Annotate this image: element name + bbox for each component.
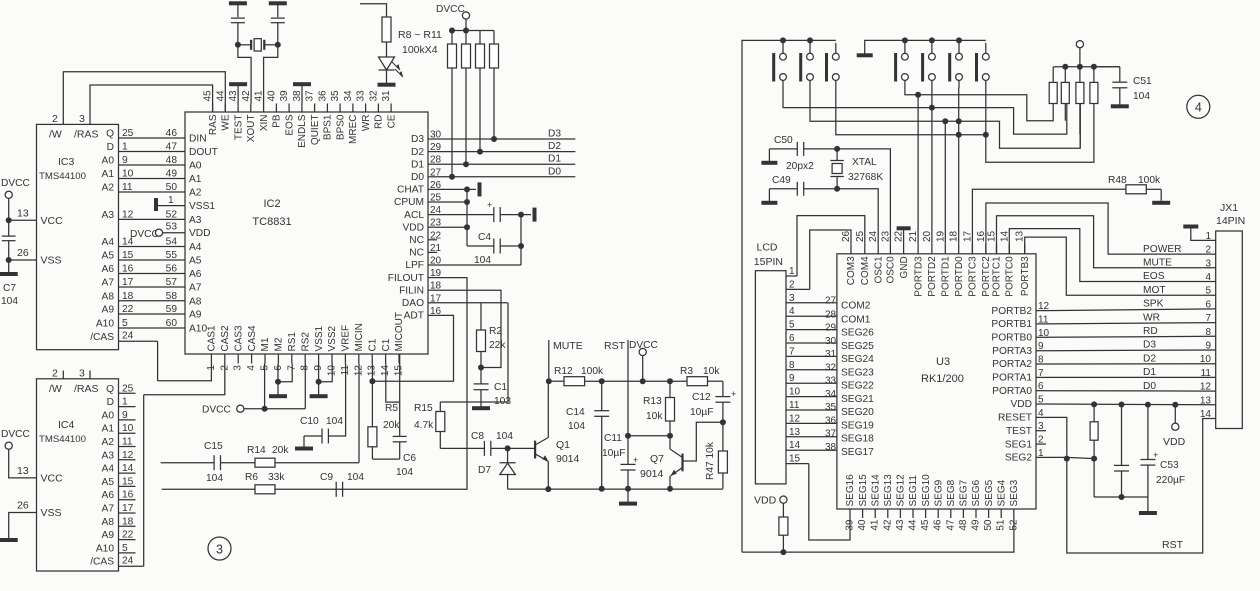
ground bar below C7 <box>0 260 18 276</box>
svg-text:D1: D1 <box>1143 367 1156 378</box>
svg-text:33: 33 <box>825 376 837 387</box>
CHAT pin 26 wire to bar <box>437 182 482 196</box>
svg-text:PORTB1: PORTB1 <box>991 319 1032 330</box>
U3 top pin 17 PORTC3 <box>962 230 978 296</box>
svg-text:29: 29 <box>825 323 837 334</box>
capacitor C14 104 <box>566 378 609 492</box>
svg-text:22: 22 <box>122 530 134 541</box>
svg-text:52: 52 <box>166 209 178 220</box>
ground bar under M2 <box>269 394 287 398</box>
svg-text:3: 3 <box>216 543 223 557</box>
U3 left pin 33 SEG22 <box>825 376 874 392</box>
svg-text:9014: 9014 <box>640 468 664 480</box>
svg-text:34: 34 <box>825 389 837 400</box>
wire IC3 A7 pin 17 to IC2 pin 57 <box>102 277 185 289</box>
push button S6 <box>948 43 962 88</box>
JX1 pin 13 <box>1200 395 1212 406</box>
svg-text:2: 2 <box>1205 245 1211 256</box>
svg-text:6: 6 <box>1205 299 1211 310</box>
capacitor C50 20p <box>761 135 840 165</box>
svg-text:SEG16: SEG16 <box>845 474 856 507</box>
svg-text:TEST: TEST <box>233 114 244 140</box>
svg-text:22k: 22k <box>489 340 506 351</box>
U3 top pin 22 GND <box>894 230 910 278</box>
svg-text:R14: R14 <box>247 445 266 456</box>
svg-text:TMS44100: TMS44100 <box>39 434 86 445</box>
svg-text:16: 16 <box>122 264 134 275</box>
svg-text:20k: 20k <box>272 445 289 456</box>
svg-text:A6: A6 <box>102 490 115 501</box>
svg-text:8: 8 <box>1038 355 1044 366</box>
circled 3 section marker <box>208 537 231 560</box>
svg-text:14PIN: 14PIN <box>1216 215 1245 227</box>
svg-text:D2: D2 <box>1143 353 1156 364</box>
wire IC3 A1 pin 10 to IC2 pin 49 <box>102 169 185 181</box>
svg-text:26: 26 <box>17 500 29 512</box>
svg-text:/W: /W <box>49 129 62 141</box>
svg-text:3: 3 <box>233 365 244 371</box>
svg-text:CAS1: CAS1 <box>207 325 218 352</box>
svg-text:CHAT: CHAT <box>397 185 424 196</box>
svg-text:51: 51 <box>996 519 1007 531</box>
svg-text:C10: C10 <box>300 416 319 427</box>
Q1 collector wire to MUTE node <box>547 381 549 437</box>
wire C50 line to U3 OSC0 <box>837 149 890 244</box>
svg-text:XIN: XIN <box>259 115 270 132</box>
IC2 bottom pin 2 CAS2 <box>219 325 231 371</box>
wire IC3 D pin 1 to IC2 pin 47 <box>107 142 185 154</box>
svg-text:2: 2 <box>52 368 58 380</box>
crystal between XOUT and XIN <box>238 39 278 51</box>
IC4 A3 pin 12 stub <box>102 450 136 462</box>
svg-text:18: 18 <box>949 230 960 242</box>
LCD pin 3 wire to U3 pin 27 <box>786 293 837 304</box>
svg-text:9014: 9014 <box>556 453 580 465</box>
ground bar under C1 <box>472 406 490 410</box>
U3 left pin 31 SEG24 <box>825 349 874 365</box>
svg-text:/RAS: /RAS <box>74 129 99 141</box>
svg-text:46: 46 <box>933 519 944 531</box>
svg-text:RD: RD <box>1143 326 1158 337</box>
svg-text:COM3: COM3 <box>846 256 857 285</box>
svg-text:C12: C12 <box>692 392 711 403</box>
svg-text:RST: RST <box>604 340 626 352</box>
svg-text:CE: CE <box>386 114 397 128</box>
svg-text:D: D <box>107 397 114 408</box>
svg-text:+: + <box>633 455 638 465</box>
svg-text:45: 45 <box>920 519 931 531</box>
svg-text:4: 4 <box>246 365 257 371</box>
wire U3 pin 12 to JX1 pin 6 SPK <box>1046 309 1216 311</box>
svg-text:MREC: MREC <box>348 115 359 144</box>
svg-text:4: 4 <box>1038 408 1044 419</box>
svg-text:50: 50 <box>983 519 994 531</box>
MICOUT pin15 wire <box>399 354 401 402</box>
capacitor C8 104 <box>440 431 513 456</box>
svg-text:25: 25 <box>122 128 134 139</box>
svg-text:Q: Q <box>106 384 114 395</box>
svg-text:WR: WR <box>1143 312 1160 323</box>
svg-text:M1: M1 <box>260 337 271 351</box>
svg-text:A2: A2 <box>102 183 115 194</box>
push button S3 <box>825 43 839 88</box>
svg-text:PORTA3: PORTA3 <box>992 346 1032 357</box>
svg-text:32768K: 32768K <box>848 172 883 183</box>
svg-text:15: 15 <box>789 454 801 465</box>
transistor Q7 9014 <box>640 436 683 492</box>
svg-text:14: 14 <box>1200 409 1212 420</box>
pull-up resistor on RESET <box>1090 404 1098 461</box>
svg-text:DOUT: DOUT <box>189 147 218 158</box>
microcontroller U3 RK1/200 <box>837 254 1036 509</box>
svg-text:A9: A9 <box>102 305 115 316</box>
svg-text:22: 22 <box>430 230 442 241</box>
svg-text:100k: 100k <box>581 366 604 377</box>
ground bar for C10 <box>295 436 313 451</box>
CPUM pin 25 wire <box>437 201 467 203</box>
svg-text:16: 16 <box>122 490 134 501</box>
ground bar on U3 GND pin 22 <box>897 226 911 244</box>
svg-text:C4: C4 <box>478 232 491 243</box>
wire RS1 pin7 joins M2 <box>278 364 292 382</box>
resistor R3 10k <box>680 366 723 386</box>
svg-text:4: 4 <box>789 306 795 317</box>
U3 top pin 14 PORTC0 <box>999 230 1015 296</box>
wire U3 PORTC2 to JX1 POWER <box>986 203 1216 254</box>
U3 left pin 29 SEG26 <box>825 323 874 339</box>
svg-text:4: 4 <box>1205 272 1211 283</box>
LCD pin 13 wire to U3 pin 37 <box>786 427 837 438</box>
svg-text:3: 3 <box>79 113 85 125</box>
wire U3 pin 6 to JX1 pin 12 D0 <box>1046 390 1216 392</box>
DVCC terminal for keypad pull-ups <box>1076 41 1083 67</box>
svg-text:BPS0: BPS0 <box>335 114 346 140</box>
svg-text:57: 57 <box>166 277 178 288</box>
RST line <box>604 340 631 439</box>
svg-text:41: 41 <box>254 90 265 102</box>
U3 bottom pin 39 SEG16 <box>845 474 857 531</box>
wire U3 PORTC0 to JX1 EOS <box>1009 229 1215 282</box>
svg-text:M2: M2 <box>274 337 285 351</box>
svg-text:PORTD3: PORTD3 <box>913 256 924 297</box>
svg-text:A6: A6 <box>102 264 115 275</box>
svg-text:RS1: RS1 <box>287 332 298 352</box>
DRAM IC4 TMS44100 <box>37 379 119 571</box>
wire R15 top to DAO node <box>440 303 508 402</box>
svg-text:TEST: TEST <box>1006 426 1032 437</box>
svg-text:104: 104 <box>1133 91 1150 102</box>
svg-text:A1: A1 <box>189 174 202 185</box>
svg-text:A5: A5 <box>189 256 202 267</box>
IC4 pin 3 stub <box>79 368 90 380</box>
wire crystal left to IC2 XOUT pin 42 <box>238 45 251 104</box>
svg-text:SEG2: SEG2 <box>1005 453 1033 464</box>
DVCC terminal for M1 RS2 <box>202 405 268 416</box>
svg-text:4: 4 <box>1195 101 1202 115</box>
svg-text:25: 25 <box>122 383 134 394</box>
LPF pin 20 wire <box>437 215 521 265</box>
push button S5 <box>921 43 935 88</box>
svg-text:R6: R6 <box>245 472 258 483</box>
svg-text:VSS: VSS <box>41 507 62 519</box>
IC2 top pin 35 BPS0 <box>330 90 346 140</box>
svg-text:VDD: VDD <box>1010 399 1032 410</box>
MICIN pin12 wire <box>275 364 359 463</box>
svg-text:35: 35 <box>825 402 837 413</box>
transistor Q1 9014 <box>535 438 579 466</box>
capacitor C53 220uF polarized <box>1140 405 1185 497</box>
svg-text:2: 2 <box>1038 435 1044 446</box>
svg-text:CAS3: CAS3 <box>233 325 244 352</box>
node wire CHAT-CPUM-VDD vertical <box>464 189 470 246</box>
VDD pin 23 wire <box>437 226 467 228</box>
bottom rail to U3 SEG3 <box>742 518 1014 552</box>
resistor R2 22k <box>477 303 507 371</box>
svg-text:47: 47 <box>945 519 956 531</box>
svg-text:38: 38 <box>825 442 837 453</box>
JX1 pin 1 <box>1183 225 1215 242</box>
keypad top rail left group <box>780 37 836 43</box>
FILOUT pin19 wire down to audio line <box>162 278 467 490</box>
svg-text:/CAS: /CAS <box>90 332 114 343</box>
LCD 15PIN connector <box>754 242 786 484</box>
wire IC3 A5 pin 15 to IC2 pin 55 <box>102 250 185 262</box>
net S4 to U3 PORTD3 and pull-up column 1 <box>905 88 1053 244</box>
IC4 Q pin 25 stub <box>106 383 135 395</box>
svg-text:46: 46 <box>166 128 178 139</box>
svg-text:6: 6 <box>1038 381 1044 392</box>
IC4 A5 pin 15 stub <box>102 476 136 488</box>
capacitor C6 104 <box>372 436 416 478</box>
emitter ground line of Q1 Q7 stage <box>508 488 723 490</box>
svg-text:43: 43 <box>895 519 906 531</box>
svg-text:IC2: IC2 <box>263 198 280 210</box>
svg-text:DVCC: DVCC <box>1 429 30 440</box>
U3 right pin 5 VDD <box>1010 395 1046 411</box>
IC2 top pin 41 XIN <box>254 90 270 131</box>
svg-text:A9: A9 <box>102 530 115 541</box>
pull-up resistor at VDD terminal <box>779 517 788 555</box>
svg-text:A1: A1 <box>102 169 115 180</box>
MUTE line <box>546 340 583 384</box>
Q1 emitter wire to ground line <box>545 462 551 493</box>
LCD pin 4 wire to U3 pin 28 <box>786 306 837 317</box>
DVCC supply terminal for IC3 <box>1 178 30 220</box>
capacitor C9 104 <box>320 472 364 497</box>
IC4 A10 pin 5 stub <box>96 543 136 555</box>
U3 top pin 26 COM3 <box>841 230 857 285</box>
resistor R13 10k <box>643 381 675 439</box>
IC4 pin 2 stub <box>52 368 63 380</box>
LCD pin 11 wire to U3 pin 35 <box>786 400 837 411</box>
svg-text:9: 9 <box>1038 341 1044 352</box>
capacitor C4 104 <box>467 232 524 266</box>
svg-text:38: 38 <box>292 90 303 102</box>
svg-text:104: 104 <box>206 473 223 484</box>
IC2 right pin 28 D1 <box>411 155 442 171</box>
svg-text:100k: 100k <box>1138 175 1161 186</box>
U3 left pin 30 SEG25 <box>825 336 874 352</box>
label R8 ~ R11 100kX4 <box>398 29 442 56</box>
svg-text:R5: R5 <box>385 403 398 414</box>
net S3 S7 to U3 PORTD0 and pull-up column 4 <box>836 88 1094 162</box>
svg-text:11: 11 <box>122 182 133 193</box>
svg-text:5: 5 <box>1205 286 1211 297</box>
resistor R12 100k <box>549 366 604 386</box>
svg-text:A3: A3 <box>189 215 202 226</box>
ground bar under VSS1 <box>310 394 328 398</box>
IC2 right pin 21 NC <box>409 243 441 259</box>
svg-text:12: 12 <box>122 209 134 220</box>
svg-text:14: 14 <box>999 230 1010 242</box>
IC2 top pin 36 BPS1 <box>317 90 333 140</box>
JX1 pin 2 <box>1143 244 1216 256</box>
svg-text:54: 54 <box>166 237 178 248</box>
svg-text:12: 12 <box>1200 382 1212 393</box>
LCD pin 9 wire to U3 pin 33 <box>786 373 837 384</box>
svg-text:A4: A4 <box>102 464 115 475</box>
JX1 pin 12 <box>1143 381 1216 393</box>
svg-text:MUTE: MUTE <box>1143 258 1172 269</box>
IC2 VSS1 pin 1 ground bar <box>154 195 185 211</box>
svg-text:SEG5: SEG5 <box>984 479 995 506</box>
svg-text:12: 12 <box>789 413 801 424</box>
U3 right pin 1 SEG2 <box>1005 448 1046 464</box>
svg-text:52: 52 <box>1008 519 1019 531</box>
svg-text:16: 16 <box>976 230 987 242</box>
svg-text:10µF: 10µF <box>690 407 713 418</box>
svg-text:15PIN: 15PIN <box>754 256 783 268</box>
IC2 right pin 26 CHAT <box>397 180 442 196</box>
svg-text:TMS44100: TMS44100 <box>39 171 86 182</box>
svg-text:SEG24: SEG24 <box>841 354 874 365</box>
svg-text:55: 55 <box>166 250 178 261</box>
svg-text:A3: A3 <box>102 450 115 461</box>
svg-text:27: 27 <box>825 296 837 307</box>
svg-text:3: 3 <box>1205 258 1211 269</box>
wire IC3 A6 pin 16 to IC2 pin 56 <box>102 264 185 276</box>
svg-text:PORTB2: PORTB2 <box>991 306 1032 317</box>
U3 bottom pin 51 SEG4 <box>996 479 1008 530</box>
svg-text:C14: C14 <box>566 407 585 418</box>
svg-text:SEG1: SEG1 <box>1005 439 1033 450</box>
svg-text:10: 10 <box>122 423 134 434</box>
svg-text:8: 8 <box>789 360 795 371</box>
U3 top pin 19 PORTD1 <box>935 230 951 296</box>
JX1 pin 9 <box>1143 340 1216 352</box>
wire RS2 pin8 to DVCC rail <box>304 364 306 409</box>
svg-text:R47 10k: R47 10k <box>705 441 716 480</box>
svg-text:SEG22: SEG22 <box>841 381 874 392</box>
svg-text:48: 48 <box>958 519 969 531</box>
svg-text:20px2: 20px2 <box>786 161 814 172</box>
svg-text:24: 24 <box>122 555 134 566</box>
svg-text:A7: A7 <box>102 504 115 515</box>
IC2 top pin 32 RD <box>368 90 384 129</box>
svg-text:POWER: POWER <box>1143 244 1182 255</box>
wire CAS2 to IC4 /CAS <box>144 364 225 395</box>
svg-text:14: 14 <box>789 440 801 451</box>
IC4 A2 pin 11 stub <box>102 437 136 449</box>
svg-text:+: + <box>731 389 736 399</box>
svg-text:14: 14 <box>122 463 134 474</box>
svg-text:XTAL: XTAL <box>852 157 877 168</box>
IC2 bottom pin 1 CAS1 <box>206 325 218 371</box>
svg-text:10k: 10k <box>703 366 720 377</box>
svg-text:36: 36 <box>825 415 837 426</box>
svg-text:SEG18: SEG18 <box>841 434 874 445</box>
net S2 S6 to U3 PORTD1 and pull-up column 3 <box>810 88 1080 244</box>
svg-text:SPK: SPK <box>1143 299 1164 310</box>
svg-text:VSS1: VSS1 <box>314 325 325 351</box>
svg-text:PORTC3: PORTC3 <box>968 256 979 297</box>
label 20px2 <box>786 161 814 172</box>
svg-text:17: 17 <box>122 503 134 514</box>
C1 pin14 wire to capacitor C6 <box>386 364 400 436</box>
svg-text:OSC1: OSC1 <box>873 256 884 284</box>
svg-text:PORTD0: PORTD0 <box>954 256 965 297</box>
svg-text:6: 6 <box>789 333 795 344</box>
svg-text:VCC: VCC <box>41 215 64 227</box>
svg-text:42: 42 <box>241 90 252 102</box>
svg-text:WR: WR <box>361 115 372 132</box>
U3 bottom pin 40 SEG15 <box>857 474 869 531</box>
svg-text:20: 20 <box>922 230 933 242</box>
IC2 top pin 42 XOUT <box>241 90 257 142</box>
IC2 right pin 29 D2 <box>411 142 442 158</box>
svg-text:SEG8: SEG8 <box>946 479 957 506</box>
wire IC3 A4 pin 14 to IC2 pin 54 <box>102 237 185 249</box>
svg-text:EOS: EOS <box>1143 271 1165 282</box>
svg-text:4.7k: 4.7k <box>414 420 434 431</box>
svg-text:42: 42 <box>882 519 893 531</box>
IC4 A7 pin 17 stub <box>102 503 136 515</box>
wire U3 pin 10 to JX1 pin 8 RD <box>1046 336 1216 337</box>
svg-text:24: 24 <box>122 331 134 342</box>
svg-text:R2: R2 <box>489 326 502 337</box>
svg-text:JX1: JX1 <box>1220 202 1238 214</box>
DAO pin17 wire <box>437 302 508 304</box>
C1 pin13 wire to resistor R5 <box>369 364 375 427</box>
svg-text:SEG19: SEG19 <box>841 420 874 431</box>
JX1 pin 3 <box>1143 258 1216 270</box>
svg-text:44: 44 <box>908 519 919 531</box>
U3 bottom pin 52 SEG3 <box>1008 479 1020 530</box>
svg-text:33k: 33k <box>268 472 285 483</box>
IC2 bottom pin 15 MICOUT <box>394 312 406 376</box>
svg-text:5: 5 <box>122 318 128 329</box>
IC4 A1 pin 10 stub <box>102 423 136 435</box>
LCD pin 2 wire to U3 COM3 <box>786 230 851 290</box>
IC4 A8 pin 18 stub <box>102 516 136 528</box>
wire M1 pin5 to DVCC <box>265 364 306 409</box>
svg-text:OSC0: OSC0 <box>886 256 897 284</box>
svg-text:9: 9 <box>122 155 128 166</box>
svg-text:PORTC0: PORTC0 <box>1005 256 1016 297</box>
svg-text:10: 10 <box>789 387 801 398</box>
svg-text:15: 15 <box>987 230 998 242</box>
svg-text:SEG20: SEG20 <box>841 407 874 418</box>
wire U3 pin 9 to JX1 pin 9 D3 <box>1046 349 1216 352</box>
svg-text:9: 9 <box>122 410 128 421</box>
wire C49 line to U3 OSC1 <box>837 189 878 244</box>
svg-text:WE: WE <box>221 114 232 130</box>
svg-text:11: 11 <box>789 400 800 411</box>
wire CAS1 to IC3 /CAS <box>158 364 212 381</box>
svg-text:MICOUT: MICOUT <box>394 312 405 351</box>
IC2 bottom pin 13 C1 <box>367 338 379 376</box>
VDD rail from U3 pin 5 to JX1 pin 13 <box>1046 401 1216 407</box>
